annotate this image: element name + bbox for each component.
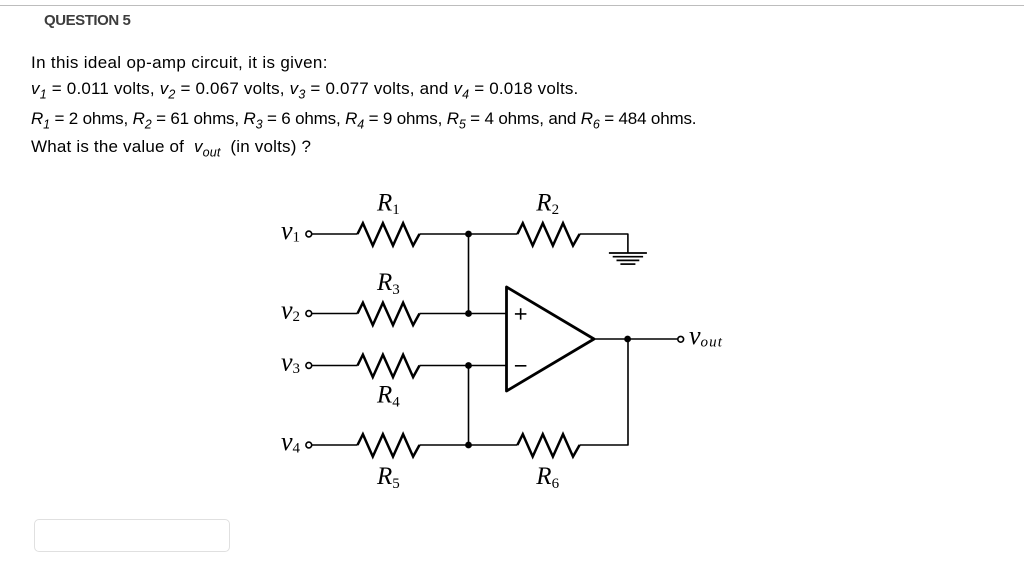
wire op-amp output to terminal vout	[594, 338, 677, 340]
wire node C down to node D	[468, 366, 470, 446]
wire v1 to R1	[312, 233, 358, 235]
wire R6 up to output node	[580, 339, 628, 445]
terminal v3	[306, 363, 312, 369]
answer input box	[34, 519, 230, 552]
svg-text:R2: R2	[535, 189, 559, 218]
node A (junction R1/R2)	[465, 231, 472, 238]
wire R4 to op-amp - input	[420, 365, 507, 367]
svg-text:R6: R6	[535, 463, 559, 492]
top divider line	[0, 5, 1024, 6]
svg-text:R4: R4	[376, 382, 400, 411]
wire node D to R6	[469, 444, 518, 446]
resistor R6	[517, 434, 579, 456]
node E (output junction)	[624, 336, 631, 343]
svg-text:v3: v3	[281, 348, 300, 378]
wire R5 to node D	[420, 444, 469, 446]
terminal vout	[678, 336, 684, 342]
wire v2 to R3	[312, 313, 358, 315]
svg-text:v1: v1	[281, 216, 300, 246]
wire node A down to node B	[468, 234, 470, 314]
svg-text:v2: v2	[281, 296, 300, 326]
svg-text:R5: R5	[376, 463, 400, 492]
op-amp U1	[507, 287, 595, 391]
terminal v1	[306, 231, 312, 237]
svg-text:vout: vout	[689, 321, 723, 351]
node D (junction R5/R6)	[465, 442, 472, 449]
resistor R1	[358, 223, 420, 245]
resistor R2	[517, 223, 579, 245]
resistor R3	[358, 303, 420, 325]
node B (junction + input)	[465, 310, 472, 317]
terminal v4	[306, 442, 312, 448]
wire R1 to node A	[420, 233, 469, 235]
wire node A to R2	[469, 233, 518, 235]
svg-text:R1: R1	[376, 189, 400, 218]
wire v4 to R5	[312, 444, 358, 446]
wire R3 to op-amp + input	[420, 313, 507, 315]
ground	[609, 253, 647, 264]
wire R2 to ground	[580, 234, 628, 253]
svg-text:R3: R3	[376, 269, 400, 298]
svg-text:v4: v4	[281, 427, 301, 457]
wire v3 to R4	[312, 365, 358, 367]
terminal v2	[306, 311, 312, 317]
question header	[44, 12, 130, 29]
body text	[31, 53, 328, 73]
node C (junction - input)	[465, 362, 472, 369]
resistor R4	[358, 355, 420, 377]
resistor R5	[358, 434, 420, 456]
